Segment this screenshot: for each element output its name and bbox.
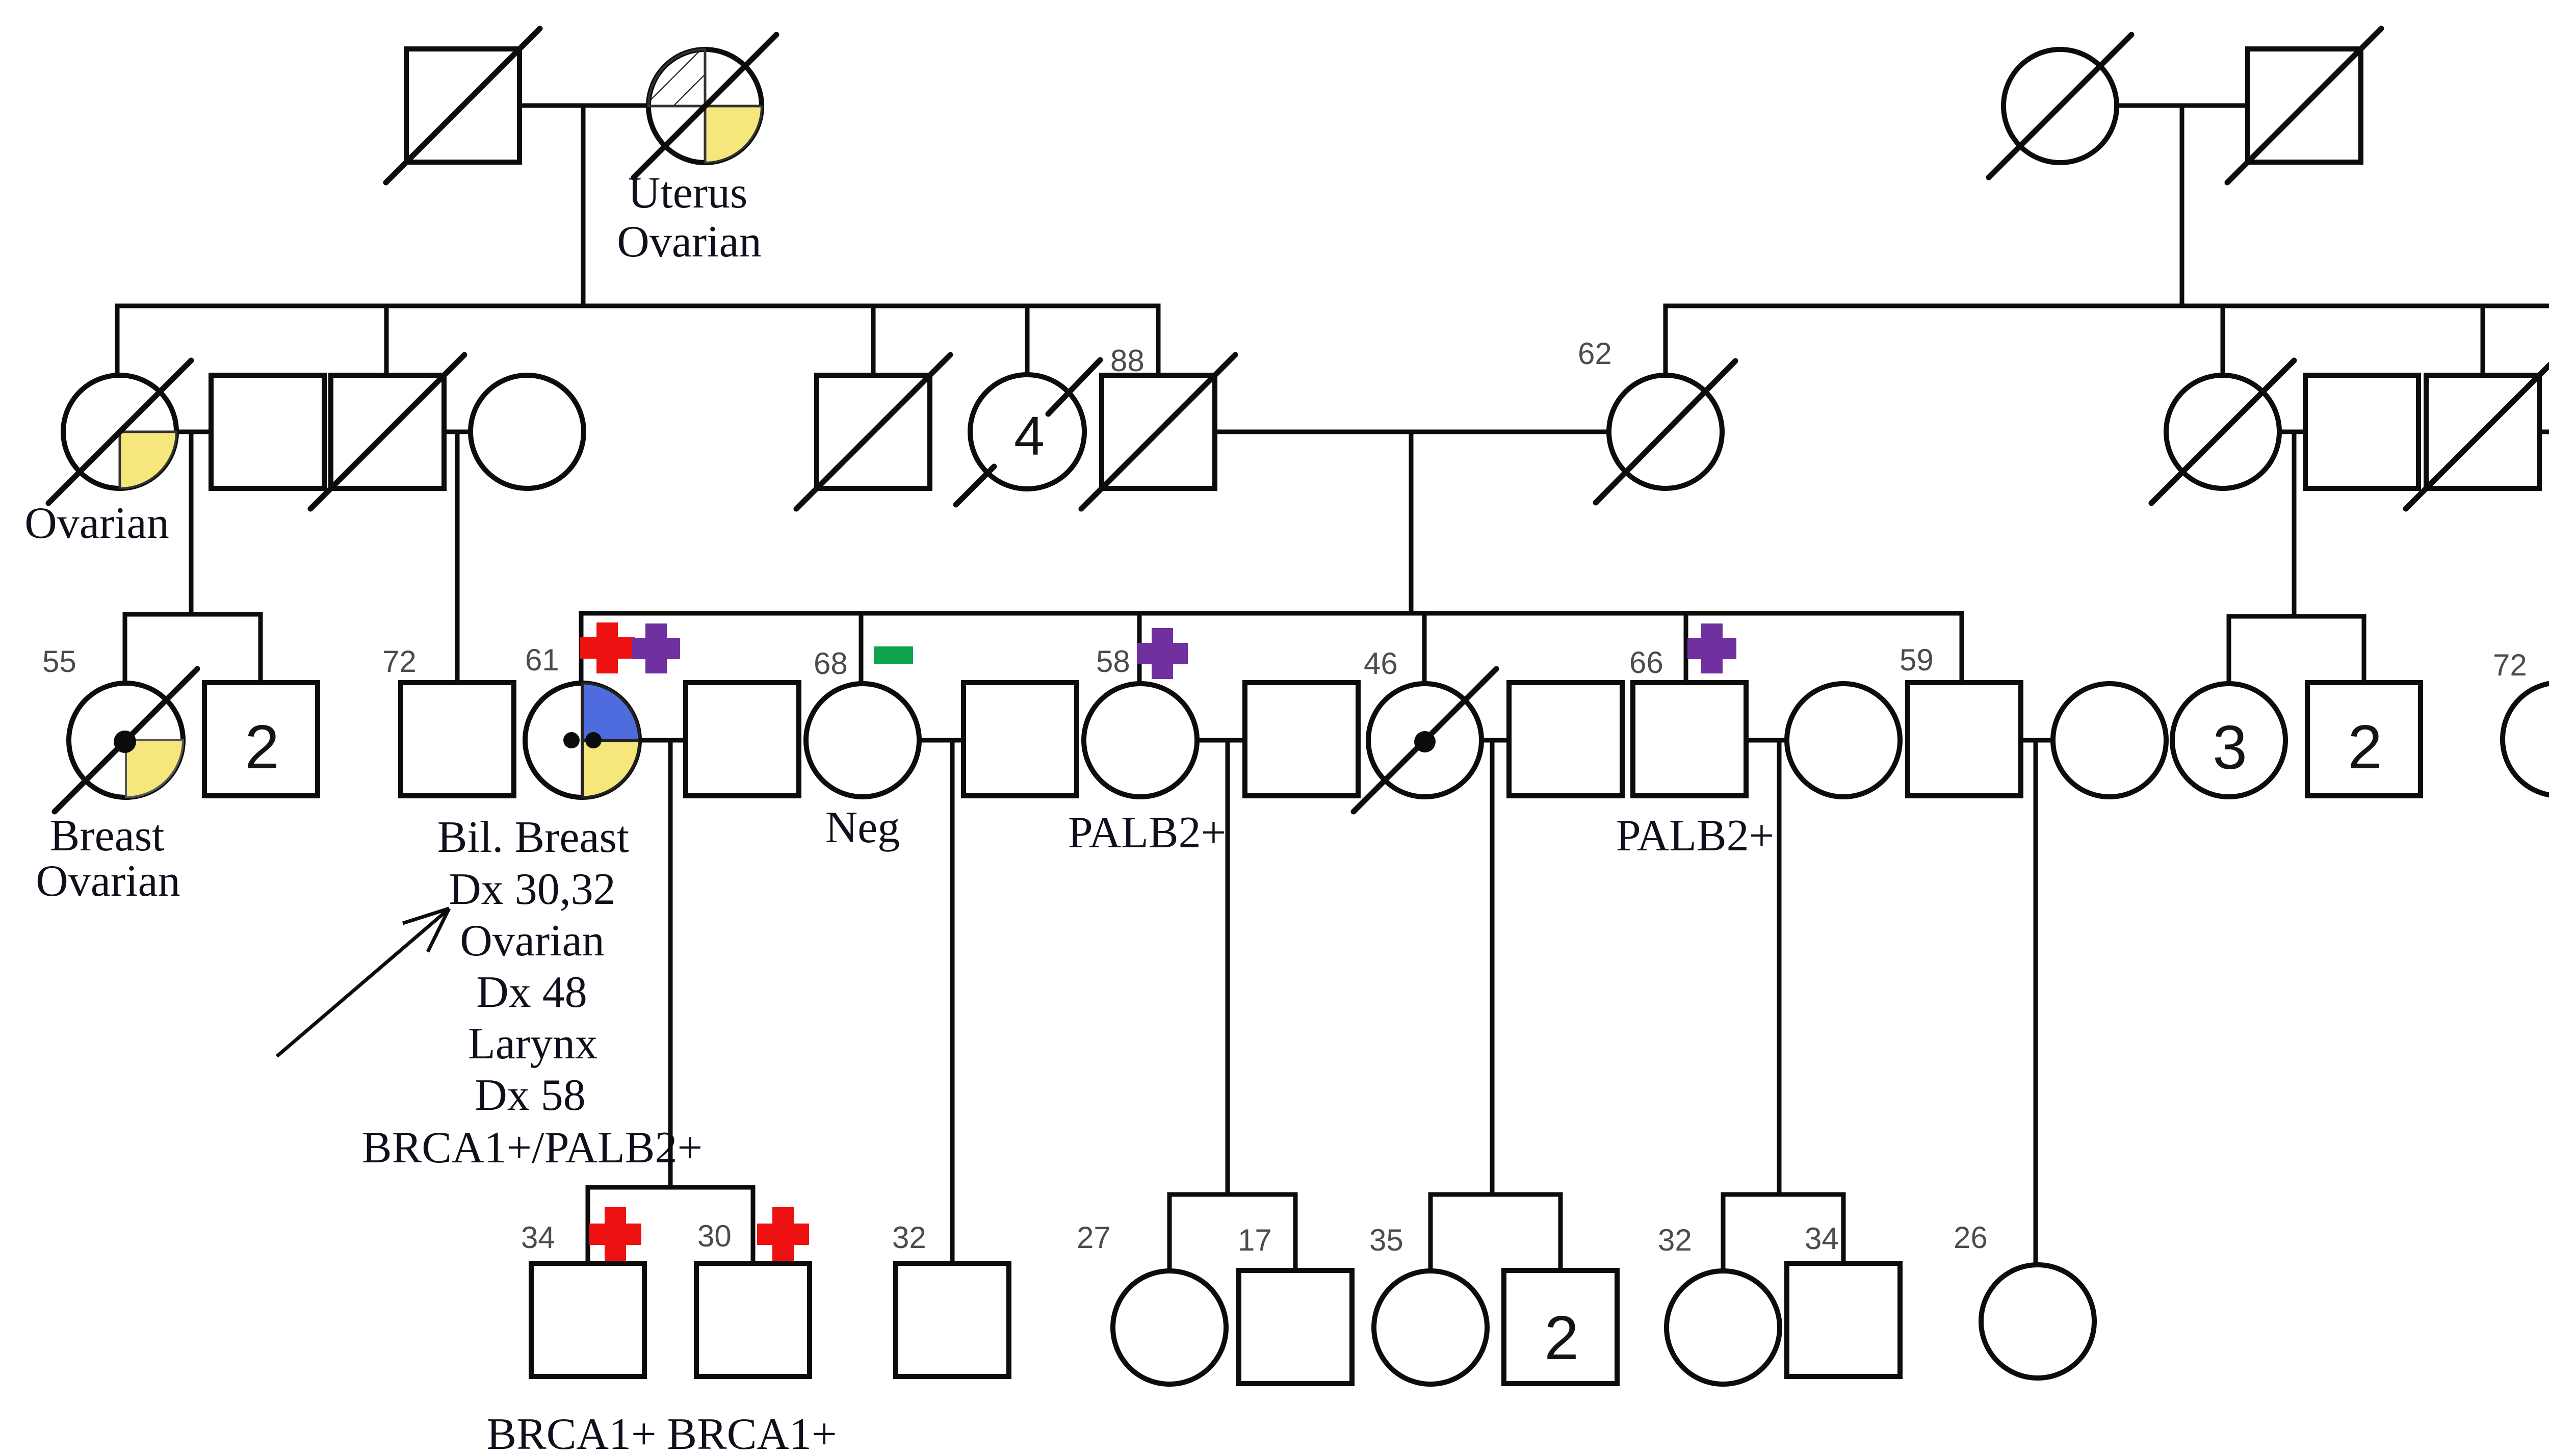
wire: drop to sibship IV-4/IV-5 [1226, 740, 1230, 1194]
svg-text:88: 88 [1110, 344, 1145, 378]
marker: green bar (III-6, Neg) [874, 646, 913, 664]
male IV-1 "34" (BRCA1+) [531, 1263, 644, 1376]
female IV-8 "32" [1667, 1271, 1780, 1384]
slash II-3 [310, 355, 464, 509]
wire: descent drop from I-1/I-2 [581, 106, 586, 306]
svg-text:32: 32 [892, 1220, 926, 1255]
svg-text:Ovarian: Ovarian [617, 217, 761, 267]
slash II-7 [1081, 355, 1235, 509]
wire: sibship bracket IV-4/IV-5 [1169, 1194, 1295, 1271]
svg-text:62: 62 [1578, 336, 1612, 371]
female I-2 (deceased, Uterus + Ovarian) [634, 35, 776, 177]
female II-4 [471, 375, 584, 488]
female II-8 "62" (deceased) [1609, 375, 1722, 488]
svg-text:2: 2 [2348, 712, 2382, 782]
wire: child drop III-12 [1684, 613, 1688, 683]
svg-text:35: 35 [1369, 1223, 1403, 1257]
marker: purple cross (III-8) [1137, 628, 1188, 679]
svg-text:3: 3 [2213, 713, 2247, 782]
female III-8 "58" (PALB2+) [1084, 684, 1197, 797]
male II-2 [211, 375, 324, 488]
female III-6 "68" [806, 684, 919, 797]
wire: marriage III-4 x III-5 [639, 738, 686, 743]
wire: child drop II-6 [1025, 306, 1030, 376]
marker: purple cross (III-12) [1687, 623, 1736, 673]
male III-12 "66" (PALB2+) [1633, 683, 1746, 796]
svg-text:Uterus: Uterus [628, 168, 748, 218]
female IV-10 "26" [1981, 1265, 2094, 1378]
svg-text:Dx 30,32: Dx 30,32 [449, 865, 616, 914]
svg-text:30: 30 [697, 1219, 732, 1253]
male III-9 (husband of 58) [1245, 683, 1358, 796]
wire: drop to sibship of III-1 [189, 432, 194, 614]
svg-text:4: 4 [1014, 405, 1045, 466]
slash II-9 [2151, 360, 2294, 503]
wire: descent drop from II-7/II-8 [1409, 432, 1414, 613]
svg-text:55: 55 [42, 644, 76, 679]
male III-3 "72" [401, 683, 514, 796]
svg-text:72: 72 [2493, 648, 2527, 682]
slash II-8 [1596, 361, 1735, 503]
male III-2 (2 individuals) [204, 683, 318, 796]
svg-text:34: 34 [1805, 1221, 1839, 1256]
slash II-5 [796, 355, 950, 509]
wire: marriage line I-3 x I-4 [2117, 103, 2248, 108]
wire: child drop III-6 [859, 613, 864, 684]
female IV-6 "35" [1374, 1271, 1487, 1384]
svg-text:Breast: Breast [50, 811, 165, 861]
male III-14 "59" [1908, 683, 2021, 796]
wire: sibship line right family [1666, 306, 2549, 375]
svg-text:Ovarian: Ovarian [24, 499, 169, 548]
wire: sibship bracket IV-8/IV-9 [1723, 1194, 1843, 1271]
male II-7 "88" (deceased) [1102, 375, 1215, 488]
male IV-7 (2 individuals) [1504, 1270, 1617, 1384]
male III-5 (husband of 61) [686, 683, 799, 796]
slash I-3 [1989, 35, 2131, 177]
wire: drop to sibship III-16/III-17 [2292, 432, 2297, 616]
wire: child drop II-11 [2481, 306, 2485, 375]
svg-text:BRCA1+/PALB2+: BRCA1+/PALB2+ [362, 1123, 703, 1173]
svg-text:Ovarian: Ovarian [36, 856, 180, 906]
wire: main sibship line (children of II-7 x II-8) [581, 613, 1962, 684]
wire: sibship bracket III-1/III-2 [125, 614, 261, 684]
svg-text:17: 17 [1238, 1223, 1272, 1257]
svg-text:Neg: Neg [825, 803, 900, 852]
slash I-1 [386, 29, 540, 183]
svg-text:BRCA1+: BRCA1+ [486, 1410, 656, 1456]
svg-text:27: 27 [1077, 1220, 1111, 1255]
svg-text:PALB2+: PALB2+ [1616, 811, 1775, 861]
slash II-11 [2406, 355, 2549, 509]
svg-text:32: 32 [1658, 1223, 1692, 1257]
wire: child drop III-10 [1422, 613, 1427, 684]
female I-3 (deceased) [2004, 49, 2117, 163]
wire: drop to sibship IV-1/IV-2 [668, 740, 673, 1187]
wire: drop to III-3 [455, 432, 460, 683]
svg-text:PALB2+: PALB2+ [1068, 808, 1227, 857]
wire: sibship bracket IV-1/IV-2 [588, 1187, 753, 1263]
wire: sibship line left family [117, 306, 1158, 375]
wire: marriage II-3 x II-4 [444, 430, 471, 434]
male I-1 (deceased) [406, 49, 519, 162]
svg-text:26: 26 [1954, 1220, 1988, 1255]
marker: red cross (III-4) [580, 622, 635, 673]
female III-18 "72" [2503, 683, 2549, 796]
male I-4 (deceased) [2248, 49, 2361, 162]
svg-text:Dx 48: Dx 48 [476, 968, 587, 1017]
svg-text:Larynx: Larynx [468, 1019, 597, 1069]
male IV-3 "32" [896, 1263, 1009, 1376]
svg-text:2: 2 [245, 712, 279, 782]
svg-text:61: 61 [525, 643, 559, 677]
svg-text:66: 66 [1629, 645, 1663, 680]
female III-1 "55" (deceased, Breast + Ovarian) [55, 669, 197, 812]
svg-text:59: 59 [1900, 643, 1934, 677]
wire: drop to sibship IV-8/IV-9 [1777, 740, 1782, 1194]
wire: marriage II-9 x II-10 [2279, 430, 2305, 434]
svg-text:Ovarian: Ovarian [460, 916, 604, 966]
marker: red cross (IV-2) [757, 1207, 809, 1261]
female II-9 (deceased) [2166, 375, 2279, 488]
female III-13 (wife of 66) [1787, 684, 1900, 797]
male IV-9 "34" [1787, 1263, 1900, 1376]
wire: marriage III-14 x III-15 [2021, 738, 2053, 743]
female III-10 "46" (deceased, Breast) [1354, 669, 1496, 812]
wire: drop to IV-10 [2034, 740, 2038, 1265]
male III-7 (husband of 68) [964, 683, 1077, 796]
proband arrow [277, 908, 449, 1056]
male II-11 (deceased) [2426, 375, 2539, 488]
wire: child drop II-3 [384, 306, 389, 375]
wire: descent drop from I-3/I-4 [2180, 106, 2184, 306]
female IV-4 "27" [1113, 1271, 1226, 1384]
proband female III-4 "61" (Bil. breast, Ovarian, Larynx) [525, 683, 639, 797]
wire: marriage III-10 x III-11 [1481, 738, 1509, 743]
wire: child drop III-8 [1137, 613, 1142, 684]
male IV-2 "30" (BRCA1+) [696, 1263, 810, 1376]
male III-17 (2 individuals) [2307, 683, 2421, 796]
wire: marriage III-8 x III-9 [1197, 738, 1245, 743]
wire: marriage III-12 x III-13 [1746, 738, 1787, 743]
wire: marriage line I-1 x I-2 [519, 103, 651, 108]
slash I-4 [2227, 29, 2381, 183]
svg-text:Dx 58: Dx 58 [475, 1071, 586, 1120]
svg-text:2: 2 [1544, 1303, 1579, 1372]
wire: child drop II-9 [2221, 306, 2225, 376]
multiple II-6: 4 deceased siblings [956, 360, 1100, 505]
svg-text:68: 68 [814, 646, 848, 681]
svg-text:BRCA1+: BRCA1+ [667, 1410, 837, 1456]
svg-text:72: 72 [382, 644, 417, 679]
svg-text:Bil. Breast: Bil. Breast [437, 813, 629, 862]
marker: red cross (IV-1) [589, 1207, 641, 1261]
female III-16 (3 individuals) [2172, 684, 2285, 797]
wire: marriage II-1 x II-2 [176, 430, 211, 434]
wire: sibship bracket IV-6/IV-7 [1430, 1194, 1560, 1271]
wire: marriage III-6 x III-7 [919, 738, 964, 743]
svg-text:58: 58 [1096, 644, 1130, 679]
wire: marriage II-11 x II-12 [2539, 430, 2549, 434]
female II-1 (deceased, Ovarian) [48, 360, 191, 503]
marker: purple cross (III-4) [632, 623, 680, 673]
male II-3 (deceased) [331, 375, 444, 488]
male II-5 (deceased) [817, 375, 930, 488]
male II-10 [2305, 375, 2418, 488]
wire: child drop II-5 [871, 306, 876, 375]
female III-15 (wife of 59) [2053, 684, 2166, 797]
wire: drop to IV-3 [950, 740, 955, 1263]
annotation block for proband [362, 813, 703, 1173]
svg-text:34: 34 [521, 1220, 555, 1255]
male IV-5 "17" [1239, 1270, 1352, 1384]
wire: drop to sibship IV-6/IV-7 [1490, 740, 1495, 1194]
wire: sibship bracket III-16/III-17 [2229, 616, 2364, 685]
wire: marriage II-7 x II-8 [1215, 430, 1609, 434]
male III-11 (husband of 46) [1509, 683, 1622, 796]
svg-text:46: 46 [1364, 646, 1398, 681]
